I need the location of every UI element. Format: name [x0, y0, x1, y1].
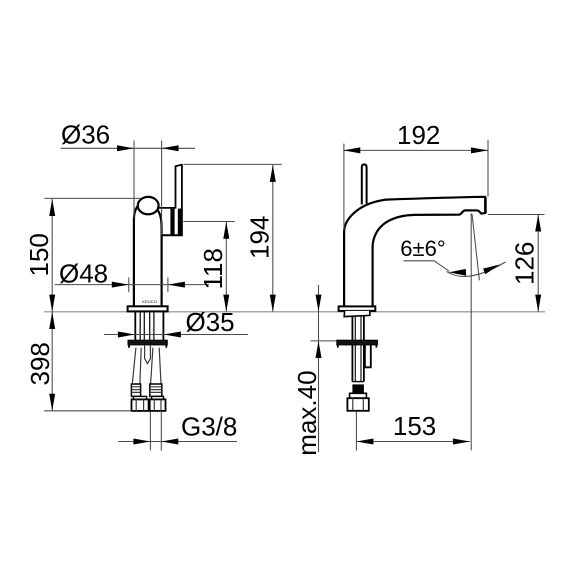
dimension 126 line	[537, 215, 539, 312]
dimension G3/8 right arrow	[161, 439, 178, 445]
dimension 150 top arrow	[49, 199, 55, 216]
angle arc right arrow	[483, 264, 500, 274]
svg-text:Ø35: Ø35	[186, 307, 235, 337]
dimension 192 line	[343, 149, 488, 151]
dimension Ø48 right arrow	[168, 282, 185, 288]
dimension Ø35 right arrow	[164, 332, 181, 338]
dimension 153 right arrow	[453, 439, 470, 445]
front view faucet body left edge	[134, 204, 141, 307]
front view right hose collar	[152, 396, 164, 399]
dimension 398 extension line bottom	[44, 410, 131, 412]
front view right hose nut G3/8	[150, 399, 166, 411]
dimension 192 left arrow	[343, 147, 360, 153]
side view shank inner hose lines	[355, 317, 361, 382]
svg-text:398: 398	[25, 342, 55, 385]
front view faucet body right edge	[157, 209, 162, 306]
dimension Ø48 extension lines	[129, 278, 168, 293]
svg-text:G3/8: G3/8	[181, 412, 237, 442]
side view hose joint line	[352, 381, 364, 383]
svg-text:194: 194	[244, 216, 274, 259]
dimension 194 extension line	[184, 163, 282, 165]
side view hose collar	[350, 393, 367, 398]
dimension 194 bottom arrow	[270, 295, 276, 312]
svg-text:118: 118	[198, 248, 228, 289]
dimension Ø36 extension lines	[134, 141, 162, 236]
dimension Ø36 left arrow	[117, 145, 134, 151]
dimension 153 line	[356, 441, 470, 443]
dimension 126 top arrow	[535, 215, 541, 232]
side view spout end face	[484, 197, 487, 213]
front view base flange	[128, 306, 168, 311]
side view lever stick	[362, 164, 367, 204]
front view shank inner hose lines	[140, 312, 154, 340]
dimension 398 line	[51, 312, 53, 411]
dimension 150 extension line top	[44, 197, 141, 199]
svg-text:6±6°: 6±6°	[400, 236, 445, 261]
front view lever dark stripe	[170, 209, 174, 236]
side view shank tube	[352, 316, 364, 381]
dimension 126 extension line top	[488, 214, 545, 216]
svg-text:153: 153	[393, 411, 436, 441]
dimension 118 top arrow	[223, 222, 229, 239]
dimension 153 left arrow	[356, 439, 373, 445]
dimension 398 top arrow	[49, 312, 55, 329]
front view left hose ribbed section	[131, 384, 140, 396]
dimension G3/8 left arrow	[133, 439, 150, 445]
dimension G3/8 extension lines	[150, 411, 161, 450]
outlet centerline	[470, 213, 472, 450]
front view right hose tube	[151, 348, 161, 384]
dimension Ø48 left arrow	[112, 282, 129, 288]
dimension 118 extension line	[183, 221, 234, 223]
front view mounting washer	[128, 340, 167, 345]
dimension 192 right arrow	[471, 147, 488, 153]
side view hose nut G3/8	[347, 398, 368, 411]
front view washer end ticks	[129, 345, 166, 348]
outlet tilted angle line	[472, 214, 479, 280]
dimension 398 bottom arrow	[49, 394, 55, 411]
dimension 150 line	[51, 199, 53, 312]
dimension 118 line	[225, 222, 227, 312]
front view lever connector	[157, 207, 176, 209]
side view shank step	[344, 311, 370, 317]
svg-text:KEUCO: KEUCO	[142, 299, 157, 304]
front view shank outer edges	[135, 312, 163, 341]
side view mounting washer	[337, 340, 378, 345]
front view left hose collar	[134, 396, 147, 399]
dimension Ø48 line	[55, 284, 209, 286]
dimension 118 bottom arrow	[223, 295, 229, 312]
side view faucet body and spout profile	[344, 197, 485, 307]
dimension G3/8 line	[118, 441, 237, 443]
angle arc left arrow	[449, 269, 466, 276]
side view base flange	[339, 306, 376, 311]
front view left hose tube	[132, 348, 141, 384]
dimension max.40 line	[318, 285, 320, 452]
dimension 126 bottom arrow	[535, 295, 541, 312]
svg-text:Ø48: Ø48	[59, 259, 108, 289]
svg-text:Ø36: Ø36	[61, 120, 110, 150]
svg-text:126: 126	[509, 242, 539, 285]
svg-text:max.40: max.40	[292, 370, 322, 455]
dimension Ø35 line	[104, 334, 248, 336]
dimension max.40 extension line	[311, 340, 337, 342]
dimension 192 extension lines	[344, 140, 488, 230]
front view lever bar	[175, 165, 183, 236]
front view lever lower right band	[178, 209, 183, 236]
front view right hose ribbed section	[150, 384, 162, 396]
side view washer end ticks	[338, 345, 377, 348]
angle arc	[447, 262, 506, 276]
dimension Ø35 left arrow	[118, 332, 135, 338]
side view threaded stud	[365, 345, 371, 367]
dimension max.40 bottom arrow	[316, 341, 322, 358]
svg-text:192: 192	[397, 120, 440, 150]
front view ball joint	[138, 197, 159, 214]
svg-text:150: 150	[24, 233, 54, 276]
dimension 194 line	[272, 165, 274, 312]
front view lever bottom edge	[162, 234, 183, 236]
front view left hose nut G3/8	[132, 399, 149, 411]
side view hose crimp band	[352, 384, 364, 393]
dimension 150 bottom arrow	[49, 295, 55, 312]
dimension max.40 top arrow	[316, 295, 322, 312]
dimension Ø36 line	[61, 147, 195, 149]
dimension 194 top arrow	[270, 165, 276, 182]
counter reference line	[44, 311, 545, 313]
angle leader line	[404, 261, 450, 272]
dimension Ø36 right arrow	[162, 145, 179, 151]
front view threaded rod	[145, 345, 151, 364]
dimension 153 extension line left	[355, 412, 357, 451]
